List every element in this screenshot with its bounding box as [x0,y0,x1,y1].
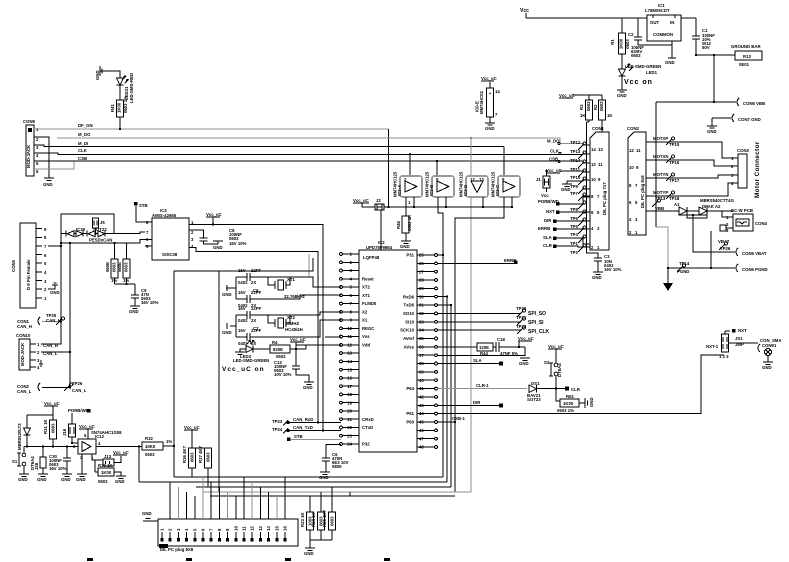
capacitor C30 [49,445,71,474]
node PORB/WD [538,197,590,206]
capacitor C6 [322,452,349,472]
svg-text:SPI_SI: SPI_SI [528,320,544,326]
pin 39 [417,370,437,375]
capacitor C9 [127,284,159,306]
suppressor IC39 PESDxCAN [61,227,145,243]
svg-text:TP2: TP2 [570,250,578,255]
svg-text:GND: GND [589,397,594,407]
svg-text:R41: R41 [110,104,115,112]
resistor R23 [300,496,314,540]
capacitor C7a 22PF xt2 top [236,306,290,323]
svg-text:39: 39 [419,370,424,375]
ground C8 [213,241,223,250]
test point TP20 SPI_SO [437,306,546,317]
svg-text:DIL PC plug 8x8: DIL PC plug 8x8 [640,175,645,208]
resistor R25 [322,487,336,540]
diode DS1 BAV21 [527,381,565,402]
connector CON3 [731,148,750,188]
svg-text:CON6 VBB: CON6 VBB [743,101,765,106]
svg-text:SCK10: SCK10 [400,328,414,333]
node CLR [565,387,581,392]
pin 48 [417,445,437,450]
svg-text:MOD-JACK: MOD-JACK [20,342,25,366]
svg-text:25: 25 [419,253,424,258]
ground CON9 [34,137,54,187]
power Vcc_uC pullups [184,425,208,448]
pin 7 CON11 [209,482,214,542]
node Vcc [520,8,529,18]
svg-text:TP21: TP21 [516,315,527,320]
svg-text:48: 48 [419,445,424,450]
svg-text:GND: GND [762,365,772,370]
test point TP10 [570,175,590,185]
svg-text:1%: 1% [166,439,172,444]
svg-text:TP8: TP8 [570,207,578,212]
svg-text:D 9 Pin Female: D 9 Pin Female [26,259,31,290]
connector CON6 VBB [737,98,765,106]
svg-text:GND: GND [592,275,602,280]
buffer U IC3-A MM74HC125 [393,154,423,208]
svg-text:X2: X2 [362,309,368,314]
svg-text:MOTYP: MOTYP [653,190,668,195]
svg-text:X1: X1 [362,318,368,323]
pin 23 [340,433,359,438]
svg-text:28: 28 [419,278,424,283]
svg-text:A1: A1 [674,202,680,207]
switch S1 [12,447,35,474]
wire Vcc rail to regulator [526,17,696,19]
svg-text:11: 11 [242,526,247,531]
svg-text:NXT: NXT [738,328,747,333]
resistor R4 820E [254,340,306,359]
jumper JS1 [719,328,747,359]
wire CAN section loop [61,214,114,322]
test point TP8 [570,201,586,212]
pin 3 CON11 [176,487,181,542]
svg-text:16V 10%: 16V 10% [229,241,247,246]
svg-text:40: 40 [419,378,424,383]
ground C9 [129,306,140,314]
svg-text:1K00: 1K00 [563,401,574,406]
test point TP13 [570,149,590,159]
svg-text:AMIS-42665: AMIS-42665 [152,213,177,218]
svg-text:TP9: TP9 [570,184,578,189]
wire CLR-1 [437,383,527,389]
svg-text:10: 10 [591,177,596,182]
svg-text:14: 14 [266,526,271,531]
capacitor C8 [189,228,247,246]
svg-text:29: 29 [419,286,424,291]
svg-text:560E: 560E [117,262,122,272]
pin 1 [340,252,359,257]
svg-text:C2: C2 [628,32,634,37]
pin 46 [417,428,437,433]
pin 12 [340,343,359,348]
connector CON11 DIL PC plug 8X8 bottom [158,519,298,552]
wire PGND [656,227,735,274]
svg-text:JS1: JS1 [735,336,743,341]
svg-text:Vss: Vss [362,334,370,339]
pin 16 [340,376,359,381]
regulator IC1 L78M05CDT [645,3,681,58]
svg-text:TP24: TP24 [272,427,283,432]
svg-text:P32: P32 [362,442,370,447]
svg-text:120E: 120E [479,345,489,350]
svg-text:R13: R13 [743,54,751,59]
pin 45 [417,420,437,425]
svg-text:12: 12 [347,343,352,348]
svg-text:0603: 0603 [206,452,211,462]
test point TP2 [570,244,586,255]
buffer U IC3-C MM74HC125 [455,147,520,493]
svg-text:R3: R3 [579,104,584,110]
svg-text:IC3-A: IC3-A [397,185,402,196]
pin 25 [417,253,437,258]
svg-text:10K0: 10K0 [145,444,156,449]
resistor R1 [610,18,630,66]
LED LED31 red [117,73,135,103]
test point TP22 SPI_CLK [437,324,549,335]
svg-text:12: 12 [470,177,475,182]
wire bottom rails [139,477,471,496]
svg-text:GROUND BAR: GROUND BAR [731,44,761,49]
svg-text:SOIC08: SOIC08 [162,252,178,257]
pin 11 [340,334,359,339]
test point TP13 VBB [646,196,677,211]
svg-text:S1: S1 [12,459,18,464]
pin 1 CON11 [160,528,165,542]
ground LED1 [617,90,627,98]
svg-text:0805: 0805 [332,464,342,469]
svg-text:R31 1K: R31 1K [43,419,48,434]
svg-text:Vcc_uC: Vcc_uC [184,425,200,430]
node ERRB stub mid [504,258,518,264]
svg-text:0402: 0402 [238,280,248,285]
pin 33 [417,319,437,324]
svg-text:22PF: 22PF [251,268,262,273]
svg-text:CON6 PGND: CON6 PGND [742,267,768,272]
svg-text:Vcc_uC: Vcc_uC [113,450,129,455]
test point TP9 [570,184,590,194]
svg-text:NXT: NXT [546,209,555,214]
svg-text:TP17: TP17 [669,178,680,183]
node STB at MCU [287,434,341,441]
connector CON9 MOD-JACK [23,119,39,176]
pin 28 [417,278,437,283]
wire CON9 pin6 stub [34,162,74,170]
svg-text:0603: 0603 [190,452,195,462]
ground top-left [95,66,120,80]
svg-text:GND: GND [95,70,100,80]
svg-text:34: 34 [419,328,424,333]
wire CON6 VBB feed [656,101,736,103]
svg-text:C18: C18 [497,337,505,342]
pin 19 [340,400,359,405]
pin 11 CON11 [242,477,247,542]
svg-text:16V 10%: 16V 10% [141,300,159,305]
svg-text:CON1: CON1 [592,126,605,131]
svg-text:STB: STB [139,203,148,208]
svg-text:P64: P64 [406,386,414,391]
svg-text:15: 15 [347,367,352,372]
svg-text:C5: C5 [253,288,259,293]
svg-text:44: 44 [419,411,424,416]
connector CON2 DIL PC plug 8x8 [627,126,646,235]
svg-text:33: 33 [419,319,424,324]
svg-text:DIL PC plug 7x7: DIL PC plug 7x7 [602,182,607,215]
svg-text:0603: 0603 [276,354,286,359]
svg-text:DT6A4: DT6A4 [557,363,562,377]
svg-text:CLK: CLK [78,148,88,153]
svg-text:10: 10 [347,326,352,331]
svg-text:10V 10%: 10V 10% [274,372,292,377]
svg-text:TP4: TP4 [570,232,578,237]
pin 5 [340,285,359,290]
pin 16 CON11 [283,477,288,542]
svg-text:GND: GND [617,93,627,98]
test point TP24 CAN_TxD [272,425,341,434]
wire reset node [24,446,78,448]
svg-text:IC3-D: IC3-D [463,185,468,196]
ground C30 [61,474,72,482]
svg-text:Vcc on: Vcc on [624,79,653,86]
svg-text:GND: GND [222,292,232,297]
svg-text:UPD78F9864: UPD78F9864 [366,245,393,250]
svg-text:CON10: CON10 [16,333,31,338]
svg-text:MOTYN: MOTYN [653,172,669,177]
wire C1 to ground bar [696,54,735,56]
svg-text:46: 46 [419,428,424,433]
ground S1 [18,474,29,482]
svg-text:CSB: CSB [78,156,87,161]
svg-text:GND: GND [304,551,314,556]
svg-text:16V 10%: 16V 10% [49,466,67,471]
svg-text:RxD6: RxD6 [403,294,415,299]
test point TP7 [570,191,590,201]
svg-text:TP5: TP5 [570,224,578,229]
svg-text:GND: GND [76,477,86,482]
pin 38 [417,361,437,366]
test point TP1 [570,235,586,246]
pin 8 CON11 [217,487,222,542]
svg-text:12: 12 [591,162,596,167]
svg-text:XT2: XT2 [362,285,370,290]
pin 14 [340,359,359,364]
resistor R36 [182,445,196,477]
svg-text:CAN_H: CAN_H [46,318,61,323]
svg-text:Vcc_uC: Vcc_uC [353,198,369,203]
svg-text:CON7 GND: CON7 GND [738,117,761,122]
svg-text:CAN_L: CAN_L [17,389,32,394]
pin 3 [340,268,359,273]
svg-text:CAN_RxD: CAN_RxD [293,417,313,422]
svg-text:GND: GND [707,129,717,134]
svg-text:Vcc_uC: Vcc_uC [44,401,60,406]
pin 9 [340,318,359,323]
diode D30 MBR0520LT3 [17,415,31,450]
svg-text:TP6: TP6 [570,216,578,221]
svg-text:SLA: SLA [543,235,552,240]
svg-text:MBRS540CTT4G: MBRS540CTT4G [700,198,735,203]
pin 17 [340,384,359,389]
svg-text:0603 1%: 0603 1% [123,96,128,113]
svg-text:R1: R1 [610,39,615,45]
svg-text:GND: GND [519,361,529,366]
wire ERRB pin26 [437,262,514,264]
test point TP21 SPI_SI [437,315,544,326]
svg-text:P60: P60 [406,420,414,425]
svg-text:GND: GND [400,244,410,249]
svg-text:L78M05CDT: L78M05CDT [645,8,670,13]
power Vcc_uC at IC3 [206,212,222,226]
pin 36 [417,344,437,349]
svg-text:30: 30 [419,294,424,299]
ground C3 [592,272,603,280]
svg-text:1K00: 1K00 [101,470,112,475]
svg-text:DIR: DIR [544,218,552,223]
svg-text:42: 42 [419,395,424,400]
jumper J1 [536,170,550,198]
svg-text:0E01: 0E01 [739,62,750,67]
svg-text:TP26: TP26 [72,381,83,386]
svg-text:GND: GND [43,182,53,187]
svg-text:SI10: SI10 [405,319,414,324]
connector CON1 CAN_H stub [17,313,65,329]
svg-text:24: 24 [347,442,352,447]
pin 15 [340,367,359,372]
pin 2 CON11 [168,482,173,542]
svg-text:MOTXN: MOTXN [653,154,669,159]
pin 7 [340,301,359,306]
svg-text:P31: P31 [406,253,414,258]
pin 4 [340,276,359,281]
LED LED3 green [233,341,269,364]
svg-text:0603: 0603 [112,262,117,272]
pin 43 [417,403,437,408]
test point TP23 CAN_RxD [272,417,341,426]
svg-text:R48: R48 [396,221,401,229]
svg-text:14: 14 [591,147,596,152]
resistor R24 [311,492,325,540]
svg-text:18: 18 [347,392,352,397]
pin 9 CON11 [225,492,230,542]
svg-text:32: 32 [419,311,424,316]
connector CON5 VBAT [736,248,767,256]
pin 20 [340,409,359,414]
svg-text:CRxD: CRxD [362,417,374,422]
svg-text:PGND: PGND [677,269,689,274]
transceiver IC3 AMIS-42665 [145,208,194,260]
wire gate enable rail [389,206,513,208]
wire DF_GN [34,123,472,207]
resistor R48 [396,197,412,241]
svg-text:SO10: SO10 [403,311,415,316]
power Vcc_uC at R3 R2 [559,93,589,98]
svg-text:XT1: XT1 [362,293,370,298]
connector CON6 PGND [736,264,768,272]
svg-text:GND: GND [129,309,139,314]
node CSB at CON1 [549,157,560,163]
svg-text:TP1: TP1 [570,241,578,246]
svg-text:16V: 16V [238,328,246,333]
svg-text:Vcc: Vcc [520,8,529,14]
ground xt1 [222,285,236,297]
svg-text:GND: GND [37,477,47,482]
capacitor C4 22PF xt1 top [236,268,290,285]
pin 2 [340,260,359,265]
jumper J2 [353,198,390,210]
capacitor C1 [692,18,715,55]
resistor R37 [198,445,212,487]
svg-text:LED-SMD-GREEN: LED-SMD-GREEN [625,64,661,69]
svg-text:CLR: CLR [543,243,553,248]
svg-text:0402: 0402 [238,318,248,323]
jumper J13 [103,450,129,466]
svg-text:R23 1K: R23 1K [300,512,305,527]
power Vcc_uC reset [44,401,60,415]
connector CON10 MOD-JACK [16,322,71,371]
resistor R41 [110,96,128,129]
capacitor C7b 22PF xt2 bottom [236,315,290,346]
svg-text:Reset: Reset [362,276,374,281]
pin 14 CON11 [266,492,271,542]
svg-text:16V: 16V [238,268,246,273]
svg-text:REGC: REGC [362,326,374,331]
svg-text:Vcc_uC: Vcc_uC [548,344,564,349]
resistor R13 ground bar [731,44,762,67]
svg-text:PORB/WB: PORB/WB [68,408,89,413]
node SLA at MCU [437,358,503,366]
pin 6 CON11 [201,477,206,542]
svg-text:16: 16 [347,376,352,381]
ground C29 [37,474,48,482]
microcontroller IC2 UPD78F9864 [340,240,438,452]
svg-text:GND: GND [142,511,152,516]
svg-text:TP10: TP10 [570,175,581,180]
wire CSB-1 from pin45 [437,421,455,423]
svg-text:0603 1%: 0603 1% [557,408,574,413]
gate IC12 SN74AHC1G08 [73,424,142,474]
pin 34 [417,328,437,333]
svg-text:13: 13 [347,351,352,356]
svg-text:TP13: TP13 [570,149,581,154]
svg-text:CAN_H: CAN_H [17,324,32,329]
node STB [134,202,152,222]
svg-text:13: 13 [479,177,484,182]
test point TP12 [570,140,590,150]
svg-text:IC12: IC12 [95,434,105,439]
svg-text:PORB/WD: PORB/WD [538,199,559,204]
wire IC3 pin1 to CAN_TxD [189,225,323,431]
svg-text:20: 20 [347,409,352,414]
svg-text:COMMON: COMMON [653,32,673,37]
svg-text:820E: 820E [273,347,283,352]
svg-text:41: 41 [419,386,424,391]
test point TP5 [570,218,586,229]
svg-text:0603: 0603 [599,101,604,111]
connector CON_SMA [734,338,782,362]
svg-text:0603: 0603 [625,39,630,49]
svg-text:12: 12 [250,526,255,531]
pin 12 CON11 [250,482,255,542]
svg-text:CON9: CON9 [23,119,36,124]
svg-text:CTxD: CTxD [362,425,373,430]
svg-text:MBR0520LT3: MBR0520LT3 [17,423,22,450]
ground C6 [319,472,330,480]
wire CON7 GND feed [712,118,731,126]
pin 15 CON11 [274,496,279,542]
wire MOTXP [646,136,738,158]
